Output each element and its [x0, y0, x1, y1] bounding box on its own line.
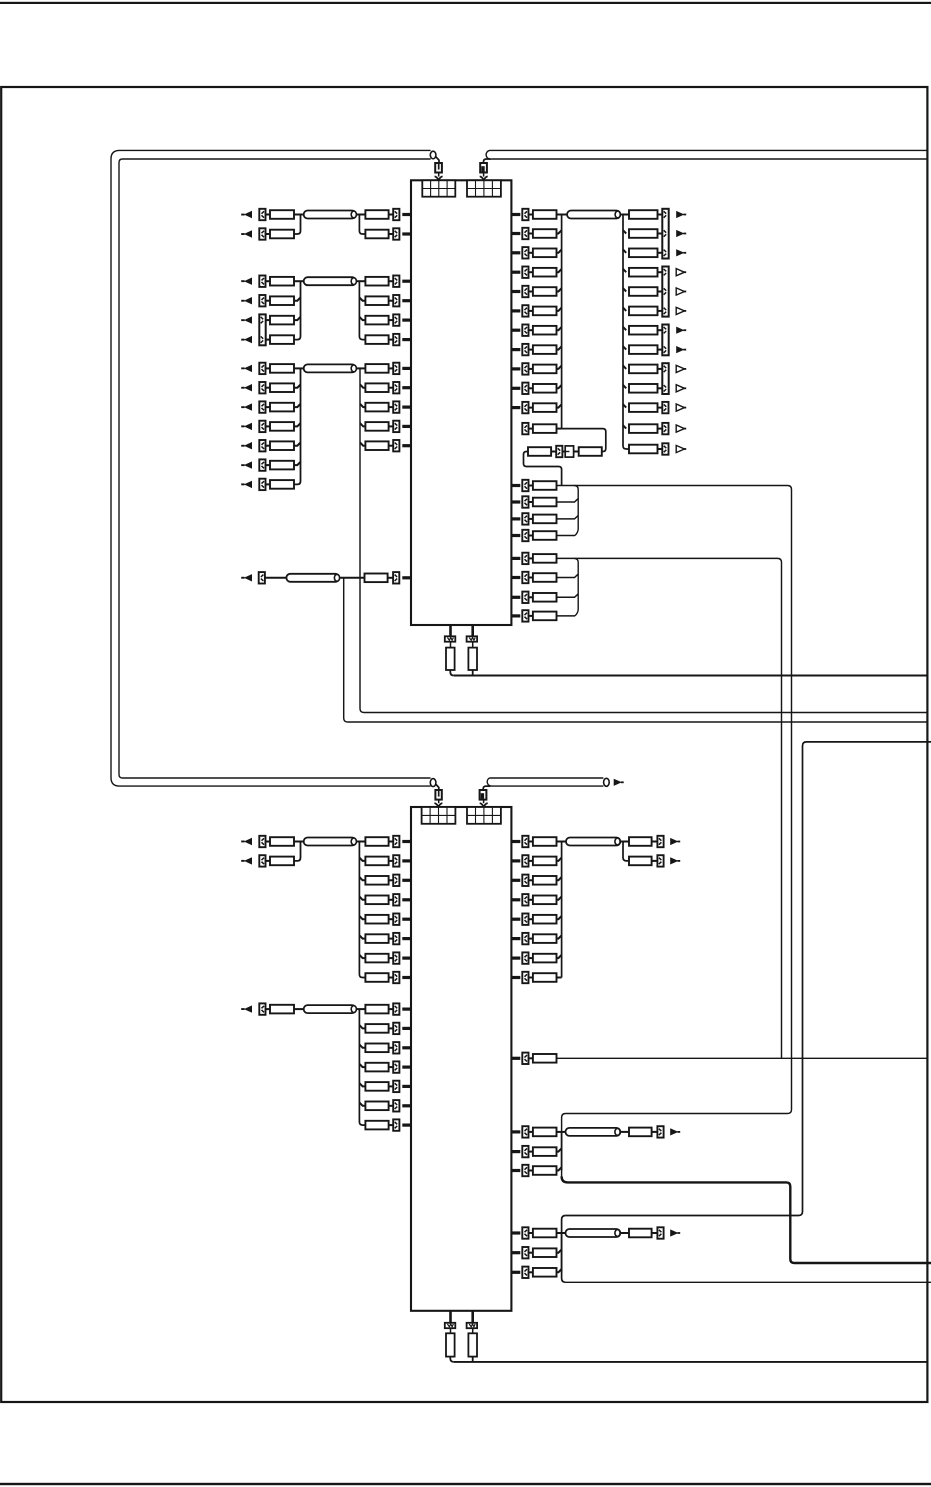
- resistor R77: [365, 1063, 388, 1072]
- connector CN1: [259, 209, 265, 220]
- connector CN71: [393, 1081, 399, 1092]
- resistor R78: [365, 1082, 388, 1091]
- arrow AR30: [241, 857, 252, 864]
- pin: [402, 976, 411, 979]
- wire: [294, 367, 304, 369]
- ferrite bead L1: [304, 211, 357, 219]
- wire: [658, 310, 663, 312]
- resistor R19: [270, 461, 294, 470]
- pin: [511, 976, 520, 979]
- wire: [389, 899, 394, 901]
- connector CN76: [522, 875, 528, 886]
- wire: [294, 297, 301, 300]
- resistor R101: [468, 1333, 477, 1356]
- resistor R82: [533, 857, 557, 866]
- arrow AR17: [676, 230, 686, 237]
- resistor R55: [533, 515, 557, 524]
- pin: [402, 425, 411, 428]
- arrow AR12: [241, 442, 252, 449]
- connector CN28: [522, 247, 528, 258]
- pin: [402, 406, 411, 409]
- resistor R20: [270, 480, 294, 489]
- resistor R46: [629, 365, 658, 374]
- arrow AR7: [241, 336, 252, 343]
- wire: [454, 1361, 927, 1363]
- pin: [449, 625, 452, 636]
- wire: [529, 1252, 533, 1254]
- connector CN72: [393, 1100, 399, 1111]
- wire: [529, 485, 533, 487]
- connector CN22: [393, 421, 399, 432]
- wire: [265, 577, 287, 579]
- pin: [511, 367, 520, 370]
- wire: [266, 464, 271, 466]
- wire: [266, 841, 271, 843]
- bus wire inner: [119, 159, 431, 778]
- connector CN31: [522, 305, 528, 316]
- pin: [511, 329, 520, 332]
- connector CN79: [522, 933, 528, 944]
- arrow AR13: [241, 461, 252, 468]
- resistor R36: [533, 403, 557, 412]
- resistor R50: [629, 445, 658, 454]
- resistor R12: [365, 335, 388, 344]
- wire: [529, 1131, 533, 1133]
- pin: [511, 1231, 520, 1234]
- pin: [402, 576, 411, 579]
- arrow AR33: [670, 857, 680, 864]
- wire: [524, 452, 562, 486]
- resistor R61: [446, 648, 455, 670]
- bus wire top: [490, 777, 604, 779]
- wire: [557, 955, 562, 958]
- resistor R94: [533, 1166, 557, 1175]
- wire: [389, 233, 394, 235]
- connector CN18: [259, 459, 265, 470]
- capacitor C1: [565, 446, 573, 457]
- pin: [511, 1150, 520, 1153]
- arrow AR1: [614, 779, 624, 786]
- pin: [511, 576, 520, 579]
- connector CN-G4: [467, 807, 501, 824]
- wire: [623, 366, 626, 369]
- wire: [389, 1008, 394, 1010]
- wire junction: [574, 558, 578, 616]
- pin: [402, 859, 411, 862]
- resistor R37: [533, 424, 557, 433]
- arrow AR25: [676, 385, 686, 392]
- wire: [359, 916, 365, 919]
- connector CN48: [522, 513, 528, 524]
- wire: [529, 1232, 533, 1234]
- wire: [529, 233, 533, 235]
- wire: [450, 670, 454, 676]
- resistor R88: [533, 973, 557, 982]
- wire: [389, 879, 394, 881]
- arrow AR5: [241, 297, 252, 304]
- wire: [623, 269, 626, 272]
- ferrite bead L2: [304, 277, 357, 285]
- connector CN78: [522, 914, 528, 925]
- wire junction: [562, 1216, 566, 1283]
- wire: [557, 214, 568, 216]
- resistor R6: [365, 277, 388, 286]
- connector CN43: [662, 423, 668, 434]
- connector CN61: [393, 894, 399, 905]
- pin: [402, 937, 411, 940]
- arrow AR16: [676, 211, 686, 218]
- wire junction: [561, 215, 563, 429]
- wire: [266, 233, 271, 235]
- wire: [356, 841, 365, 843]
- wire: [266, 483, 271, 485]
- pin notch: [435, 176, 443, 180]
- wire: [529, 329, 533, 331]
- pin: [471, 1311, 474, 1323]
- connector CN3: [259, 228, 265, 239]
- wire: [529, 518, 533, 520]
- wire: [359, 1083, 365, 1086]
- connector CN86: [522, 1146, 528, 1157]
- wire: [450, 1328, 452, 1333]
- resistor R40: [629, 249, 658, 258]
- wire: [529, 899, 533, 901]
- resistor R100: [446, 1333, 455, 1356]
- connector CN25: [393, 572, 399, 583]
- connector CN35: [522, 383, 528, 394]
- resistor R74: [365, 1005, 388, 1014]
- wire: [472, 642, 474, 648]
- bus wire outer: [111, 150, 431, 786]
- wire: [389, 300, 394, 302]
- wire: [557, 858, 562, 861]
- pin: [402, 957, 411, 960]
- resistor R3: [270, 230, 294, 239]
- wire: [557, 346, 562, 349]
- wire junction: [561, 1132, 563, 1171]
- wire: [658, 233, 663, 235]
- resistor R52: [579, 447, 602, 456]
- wire: [529, 428, 533, 430]
- wire: [529, 977, 533, 979]
- wire: [356, 280, 365, 282]
- resistor R93: [533, 1147, 557, 1156]
- connector CN53: [522, 610, 528, 621]
- wire: [658, 291, 663, 293]
- bus wire bottom: [492, 785, 604, 787]
- resistor R72: [365, 973, 388, 982]
- wire: [472, 1357, 474, 1362]
- connector CN37: [522, 423, 528, 434]
- wire: [529, 407, 533, 409]
- connector CN58: [259, 855, 265, 866]
- resistor R95: [629, 1128, 652, 1137]
- pin: [511, 251, 520, 254]
- connector CN60: [393, 875, 399, 886]
- wire: [389, 1027, 394, 1029]
- wire: [339, 577, 364, 579]
- connector CN34: [522, 363, 528, 374]
- connector CN56: [259, 836, 265, 847]
- IC U1: [411, 180, 511, 625]
- wire: [551, 451, 556, 453]
- wire: [529, 615, 533, 617]
- connector CN62: [393, 914, 399, 925]
- wire: [484, 159, 491, 163]
- ferrite bead L7: [304, 1005, 357, 1013]
- pin: [511, 937, 520, 940]
- connector CN41: [662, 363, 668, 394]
- wire junction: [294, 215, 301, 235]
- wire: [389, 938, 394, 940]
- wire: [620, 1232, 629, 1234]
- pin: [511, 484, 520, 487]
- connector CN-G1: [422, 180, 455, 196]
- pin: [402, 444, 411, 447]
- resistor R34: [533, 365, 557, 374]
- wire: [529, 1151, 533, 1153]
- connector CN85: [522, 1126, 528, 1137]
- wire: [359, 897, 365, 900]
- ferrite bead L4: [286, 574, 339, 582]
- resistor R18: [270, 441, 294, 450]
- connector CN92: [657, 1227, 663, 1238]
- wire: [359, 317, 365, 320]
- connector CN42: [662, 402, 668, 413]
- pin: [511, 840, 520, 843]
- connector CN82: [657, 836, 663, 847]
- wire: [360, 442, 365, 445]
- resistor R71: [365, 954, 388, 963]
- resistor R4: [365, 230, 388, 239]
- pin: [402, 367, 411, 370]
- resistor R24: [365, 441, 388, 450]
- wire: [652, 1131, 658, 1133]
- wire: [389, 1105, 394, 1107]
- IC U2: [411, 807, 511, 1311]
- wire: [529, 879, 533, 881]
- connector CN93: [445, 1323, 456, 1328]
- wire: [557, 1167, 562, 1170]
- wire: [359, 1045, 365, 1048]
- wire: [658, 349, 663, 351]
- wire: [658, 271, 663, 273]
- arrow AR20: [676, 288, 686, 295]
- connector CN5: [259, 276, 265, 287]
- connector CN68: [393, 1023, 399, 1034]
- pin: [402, 386, 411, 389]
- resistor R16: [270, 403, 294, 412]
- wire: [557, 230, 562, 233]
- wire: [389, 918, 394, 920]
- pin notch: [480, 803, 488, 807]
- resistor R5: [270, 277, 294, 286]
- wire: [389, 1066, 394, 1068]
- wire: [557, 1131, 566, 1133]
- resistor R81: [533, 837, 557, 846]
- connector CN90: [522, 1247, 528, 1258]
- wire: [360, 384, 365, 387]
- wire: [529, 349, 533, 351]
- arrow AR9: [241, 384, 252, 391]
- pin: [511, 614, 520, 617]
- resistor R8: [270, 316, 294, 325]
- pin: [511, 387, 520, 390]
- pin: [511, 1057, 520, 1060]
- wire: [623, 230, 626, 233]
- resistor R86: [533, 934, 557, 943]
- wire junction: [359, 215, 365, 235]
- connector CN-T4: [480, 790, 487, 800]
- connector CN73: [393, 1119, 399, 1130]
- resistor R90: [629, 857, 652, 866]
- connector CN55: [467, 636, 478, 641]
- wire: [557, 1232, 566, 1234]
- bus wire bottom: [492, 158, 927, 160]
- wire: [623, 250, 626, 253]
- wire: [623, 327, 626, 330]
- connector CN80: [522, 952, 528, 963]
- pin: [511, 232, 520, 235]
- connector CN10: [393, 314, 399, 325]
- connector CN21: [393, 401, 399, 412]
- resistor R27: [533, 229, 557, 238]
- pin: [402, 232, 411, 235]
- wire: [529, 291, 533, 293]
- arrow AR34: [670, 1128, 680, 1135]
- wire: [389, 860, 394, 862]
- connector CN77: [522, 894, 528, 905]
- arrow AR8: [241, 365, 252, 372]
- wire: [620, 841, 629, 843]
- wire: [436, 156, 439, 163]
- wire: [557, 269, 562, 272]
- pin: [402, 319, 411, 322]
- pin: [402, 1008, 411, 1011]
- pin: [511, 1130, 520, 1133]
- ferrite bead L10: [566, 1229, 621, 1237]
- wire: [574, 451, 579, 453]
- resistor R98: [533, 1268, 557, 1277]
- resistor R2: [365, 210, 388, 219]
- resistor R21: [365, 383, 388, 392]
- ferrite bead L3: [304, 364, 357, 372]
- resistor R45: [629, 345, 658, 354]
- connector CN45: [556, 446, 562, 457]
- resistor R84: [533, 896, 557, 905]
- wire junction: [574, 486, 578, 536]
- connector CN11: [393, 334, 399, 345]
- connector CN70: [393, 1061, 399, 1072]
- wire junction: [294, 281, 301, 339]
- wire: [294, 214, 304, 216]
- wire: [529, 501, 533, 503]
- connector CN24: [259, 572, 265, 583]
- wire: [294, 1008, 304, 1010]
- connector CN19: [259, 479, 265, 490]
- wire: [266, 319, 271, 321]
- resistor R97: [533, 1248, 557, 1257]
- pin: [402, 1104, 411, 1107]
- arrow AR4: [241, 278, 252, 285]
- wire: [389, 406, 394, 408]
- resistor R17: [270, 422, 294, 431]
- wire: [529, 557, 533, 559]
- arrow AR31: [241, 1005, 252, 1012]
- arrow AR23: [676, 346, 686, 353]
- wire: [359, 1103, 365, 1106]
- pin: [402, 1124, 411, 1127]
- wire: [360, 423, 365, 426]
- wire junction: [359, 1009, 365, 1125]
- arrow AR6: [241, 316, 252, 323]
- wire: [658, 428, 663, 430]
- resistor R76: [365, 1044, 388, 1053]
- wire: [483, 800, 485, 804]
- resistor R80: [365, 1121, 388, 1130]
- wire: [529, 271, 533, 273]
- connector CN94: [467, 1323, 478, 1328]
- wire: [389, 445, 394, 447]
- wire: [436, 784, 439, 790]
- resistor R38: [629, 210, 658, 219]
- pin: [402, 1027, 411, 1030]
- resistor R9: [270, 335, 294, 344]
- wire: [266, 300, 271, 302]
- resistor R70: [365, 934, 388, 943]
- wire: [652, 860, 658, 862]
- wire: [294, 462, 301, 465]
- pin: [402, 280, 411, 283]
- wire: [557, 308, 562, 311]
- resistor R26: [533, 210, 557, 219]
- pin notch: [434, 803, 442, 807]
- resistor R67: [365, 876, 388, 885]
- resistor R75: [365, 1024, 388, 1033]
- resistor R89: [629, 837, 652, 846]
- wire: [389, 280, 394, 282]
- connector CN14: [259, 382, 265, 393]
- pin: [511, 557, 520, 560]
- wire: [658, 448, 663, 450]
- resistor R29: [533, 268, 557, 277]
- wire: [294, 404, 301, 407]
- resistor R96: [533, 1229, 557, 1238]
- wire: [294, 317, 301, 320]
- wire: [529, 252, 533, 254]
- resistor R51: [528, 447, 551, 456]
- bus end node: [430, 151, 436, 159]
- pin: [511, 348, 520, 351]
- bottom rule: [0, 1483, 931, 1485]
- connector CN87: [522, 1165, 528, 1176]
- wire: [472, 1328, 474, 1333]
- pin: [511, 596, 520, 599]
- wire: [620, 1131, 629, 1133]
- connector CN91: [522, 1267, 528, 1278]
- resistor R1: [270, 210, 294, 219]
- bus wire top: [490, 149, 927, 151]
- arrow AR29: [241, 838, 252, 845]
- wire: [557, 977, 562, 979]
- resistor R79: [365, 1102, 388, 1111]
- wire: [557, 574, 579, 577]
- connector CN81: [522, 972, 528, 983]
- wire: [266, 860, 271, 862]
- connector CN83: [657, 855, 663, 866]
- arrow AR35: [670, 1229, 680, 1236]
- wire junction: [561, 842, 563, 978]
